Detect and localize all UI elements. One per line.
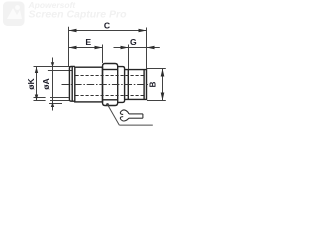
svg-text:C: C: [104, 21, 110, 31]
svg-text:G: G: [130, 37, 137, 47]
svg-text:øA: øA: [41, 78, 51, 89]
svg-text:øK: øK: [26, 77, 36, 89]
svg-text:Screen Capture Pro: Screen Capture Pro: [29, 9, 128, 21]
svg-text:E: E: [85, 37, 91, 47]
